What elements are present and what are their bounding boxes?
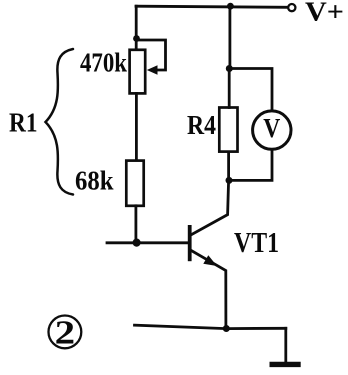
ground [270, 362, 301, 367]
wire wiper feedback loop [138, 40, 166, 70]
node base junction [133, 239, 141, 247]
node top rail junction [227, 3, 234, 10]
resistor R4 body [219, 108, 237, 152]
wire base stub [107, 241, 189, 244]
svg-text:68k: 68k [75, 165, 114, 195]
svg-text:470k: 470k [80, 48, 127, 78]
resistor 68k body (R1 lower) [126, 161, 143, 206]
wire R4 top [228, 69, 231, 108]
svg-text:R4: R4 [187, 110, 216, 140]
wire pot bottom to 68k top [135, 93, 138, 160]
transistor collector lead [191, 180, 229, 234]
voltmeter V [253, 111, 291, 149]
svg-text:VT1: VT1 [234, 228, 279, 259]
wire R4 bottom to junction [227, 152, 230, 181]
svg-text:2: 2 [55, 314, 76, 351]
wiper arrowhead [147, 65, 158, 74]
wire top supply rail [136, 6, 288, 7]
wire supply vertical [228, 6, 231, 68]
node emitter bottom junction [223, 325, 230, 332]
wire bottom rail [135, 325, 286, 328]
label circled 2 [49, 314, 82, 351]
svg-text:V+: V+ [305, 0, 344, 26]
svg-text:V: V [263, 113, 280, 143]
wire voltmeter bottom branch [229, 149, 272, 180]
transistor emitter lead [191, 251, 226, 329]
wire left branch vertical [135, 6, 138, 50]
terminal V+ [288, 4, 295, 11]
node collector/R4 junction [226, 177, 233, 184]
transistor VT1 base bar [188, 225, 192, 261]
resistor 470k body (R1 upper, potentiometer) [130, 50, 146, 94]
wire ground drop [284, 328, 287, 362]
svg-text:R1: R1 [9, 108, 38, 138]
emitter arrowhead [203, 255, 217, 266]
wire voltmeter top branch [229, 69, 272, 111]
node pot top junction [133, 35, 140, 42]
wire 68k bottom to base node [134, 206, 137, 243]
brace R1 [46, 49, 74, 195]
node supply split junction [226, 65, 233, 72]
